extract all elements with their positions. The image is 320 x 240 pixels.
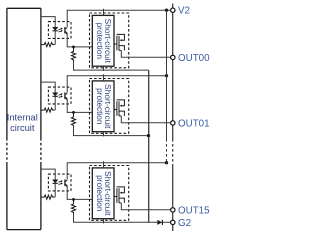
svg-text:protection: protection: [95, 23, 105, 60]
wire emitter ch3: [67, 186, 92, 200]
wire LED anode feed ch3: [41, 169, 55, 180]
optocoupler PC2 box: [48, 87, 71, 104]
light arrows PC2: [59, 94, 63, 98]
resistor R1b (pull-down): [71, 47, 75, 62]
short-circuit protection block U1: [92, 15, 114, 66]
svg-text:Internal: Internal: [7, 113, 38, 123]
short-circuit protection dashed box ch3: [90, 166, 129, 221]
wire resistor return to G2 bus ch1: [74, 61, 149, 70]
wire rail tap into U2: [103, 74, 105, 81]
phototransistor of PC1: [64, 27, 66, 34]
resistor R2a (LED series): [41, 108, 55, 112]
wire emitter ch1: [67, 33, 92, 47]
transistor Q1 (output MOSFET): [114, 34, 124, 50]
wire LED cathode ch1: [54, 31, 56, 45]
node emitter/resistor junction ch1: [72, 45, 75, 48]
wire block bottom tap U1: [103, 66, 105, 71]
node rail-to-V2-bus junction ch2: [165, 74, 168, 77]
wire output to OUT terminal ch1: [121, 50, 171, 57]
wire block bottom tap U3: [103, 219, 105, 224]
wire LED cathode ch3: [54, 184, 56, 198]
resistor R3a (LED series): [41, 195, 55, 199]
terminal V2: [171, 8, 175, 12]
LED of optocoupler PC1: [53, 27, 58, 30]
light arrows PC1: [59, 29, 63, 33]
svg-text:OUT15: OUT15: [178, 205, 210, 216]
wire rail net V2 ch2: [67, 76, 166, 93]
short-circuit protection block U3: [92, 168, 114, 219]
wire rail tap into U1: [103, 9, 105, 16]
wire LED cathode ch2: [54, 97, 56, 111]
wire rail tap into U3: [103, 161, 105, 168]
internal circuit box: [7, 8, 41, 229]
wire G2 bus vertical: [148, 70, 150, 222]
wire V2 bus vertical: [166, 10, 168, 139]
resistor R1a (LED series): [41, 43, 55, 47]
svg-text:protection: protection: [95, 175, 105, 212]
optocoupler PC1 box: [48, 22, 71, 39]
node rail-to-V2-bus junction ch3: [165, 161, 168, 164]
short-circuit protection dashed box ch1: [90, 13, 129, 68]
wire LED anode feed ch2: [41, 82, 55, 93]
terminal OUT15: [171, 208, 175, 212]
node G2 bus / ch2 resistor junction: [147, 134, 150, 137]
resistor R3b (pull-down): [71, 199, 75, 214]
wire terminal strip line: [172, 4, 174, 140]
terminal OUT01: [171, 121, 175, 125]
resistor R2b (pull-down): [71, 112, 75, 127]
transistor Q3 (output MOSFET): [114, 187, 124, 203]
svg-text:OUT00: OUT00: [178, 53, 210, 64]
wire rail net V2 ch3: [67, 163, 166, 180]
wire LED anode feed ch1: [41, 17, 55, 28]
node rail-to-V2-bus junction ch1: [165, 9, 168, 12]
terminal OUT00: [171, 55, 175, 59]
short-circuit protection dashed box ch2: [90, 79, 129, 134]
node emitter/resistor junction ch2: [72, 111, 75, 114]
svg-text:V2: V2: [178, 6, 190, 17]
optocoupler PC3 box: [48, 174, 71, 191]
svg-text:G2: G2: [178, 218, 191, 229]
wire block bottom tap U2: [103, 132, 105, 137]
transistor Q2 (output MOSFET): [114, 100, 124, 116]
short-circuit protection block U2: [92, 81, 114, 132]
phototransistor of PC3: [64, 179, 66, 186]
terminal G2: [171, 220, 175, 224]
diode D1 (reverse connection protection): [157, 220, 162, 225]
wire emitter ch2: [67, 99, 92, 113]
wire resistor return to G2 bus ch2: [74, 126, 149, 135]
wire rail net V2 ch1: [67, 10, 171, 27]
svg-text:protection: protection: [95, 88, 105, 125]
svg-text:OUT01: OUT01: [178, 118, 210, 129]
phototransistor of PC2: [64, 92, 66, 99]
svg-text:circuit: circuit: [10, 123, 35, 133]
LED of optocoupler PC3: [53, 180, 58, 183]
wire output to OUT terminal ch2: [121, 116, 171, 123]
wire output to OUT terminal ch3: [121, 203, 171, 210]
wire resistor return ch3: [74, 213, 158, 222]
node emitter/resistor junction ch3: [72, 198, 75, 201]
light arrows PC3: [59, 181, 63, 185]
LED of optocoupler PC2: [53, 93, 58, 96]
